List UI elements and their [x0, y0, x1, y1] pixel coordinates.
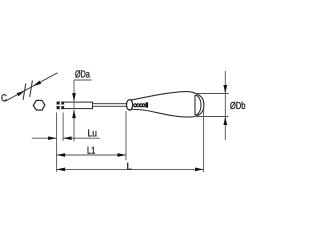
dimension C tick 1	[23, 83, 26, 100]
label L	[127, 163, 131, 170]
extension line tip end	[62, 113, 64, 141]
ØDb bottom arrow	[223, 117, 227, 126]
L1 dimension line	[57, 154, 126, 156]
label ØDb	[230, 102, 245, 110]
socket body	[57, 102, 92, 109]
label Lu	[88, 130, 96, 137]
L dimension line	[57, 168, 204, 170]
ØDa dimension line through socket	[73, 103, 75, 109]
ØDb dimension vertical line	[224, 71, 226, 140]
extension line left (tip face)	[56, 113, 58, 172]
dimension C arrow right	[33, 81, 41, 87]
handle end cap seam	[194, 95, 196, 115]
ØDa upper leader line	[73, 80, 75, 101]
L1 right arrow	[118, 153, 127, 157]
dimension C tick 2	[30, 80, 33, 97]
ØDb bottom extension line	[197, 116, 229, 118]
handle end cap dome	[195, 95, 201, 115]
extension line handle rear	[203, 108, 205, 172]
dimension C arrow left	[17, 91, 25, 97]
extension line handle front	[125, 111, 127, 160]
ØDb top arrow	[223, 85, 227, 94]
brand logo on handle	[134, 104, 145, 107]
L left arrow	[57, 168, 66, 172]
shaft	[93, 104, 127, 107]
tip square with cross	[57, 102, 64, 110]
ØDa leader underline	[74, 79, 92, 81]
label ØDa	[75, 70, 90, 77]
L1 left arrow	[57, 153, 66, 157]
Lu left arrow	[48, 136, 57, 140]
ferrule ellipse at handle front	[127, 100, 133, 110]
handle outline	[130, 92, 204, 117]
dimension C diagonal leader line	[5, 73, 58, 102]
label L1	[88, 147, 95, 154]
Lu dimension right tail	[63, 137, 100, 139]
L right arrow	[195, 168, 204, 172]
label C	[1, 94, 6, 101]
ØDa lower leader line	[73, 110, 75, 142]
ØDb top extension line	[197, 93, 229, 95]
ØDa lower arrow	[72, 110, 76, 119]
ØDa upper arrow	[72, 93, 76, 102]
Lu dimension left tail	[32, 137, 57, 139]
hexagon cross-section	[33, 100, 45, 110]
Lu right arrow	[63, 136, 72, 140]
